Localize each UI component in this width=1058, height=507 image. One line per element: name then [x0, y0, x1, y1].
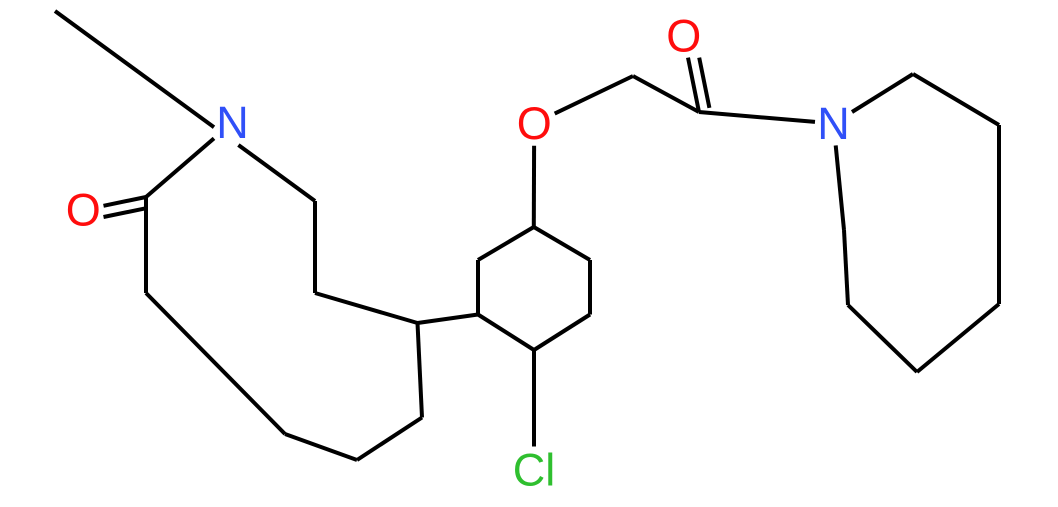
bond C11-C12: [917, 304, 999, 372]
svg-text:O: O: [666, 11, 701, 62]
ring bond T-TR: [534, 227, 590, 260]
bond R-S: [418, 323, 423, 418]
bond C12-C13b: [848, 305, 917, 372]
bond C13-N2: [836, 145, 844, 230]
bond N2-C9: [852, 74, 913, 112]
bond C1=O1 second line: [104, 208, 147, 217]
bond C7b-C7: [313, 201, 317, 293]
bond S-C7b: [315, 293, 418, 323]
ring bond TL-T: [478, 227, 534, 260]
bond S-BL link: [418, 315, 479, 324]
ring bond BR-B: [534, 315, 590, 351]
bond B-Cl: [532, 350, 536, 447]
bond C13b-C13: [844, 230, 848, 305]
bond chain CH3 side (upper piece, behind N label): [55, 11, 214, 127]
ring bond B-BL: [478, 315, 534, 351]
bond C2-P: [146, 293, 285, 434]
ring bond TR-BR: [588, 260, 592, 315]
bond C8-N2: [699, 112, 815, 122]
svg-text:N: N: [216, 97, 249, 148]
svg-text:O: O: [66, 185, 101, 236]
bond C10-C11: [997, 125, 1001, 304]
bond C9-C10: [913, 74, 999, 125]
ring bond BL-TL: [476, 260, 480, 315]
bond P-Q: [285, 434, 357, 460]
bond O2-T: [532, 146, 536, 227]
svg-text:Cl: Cl: [513, 445, 556, 496]
svg-text:O: O: [517, 98, 552, 149]
bond Q-R: [357, 418, 422, 461]
bond chain to C7 (lower piece, behind N label): [238, 145, 315, 201]
bond APX-C8: [633, 76, 699, 112]
bond C8=O3 second line: [699, 58, 709, 108]
bond C1=O1 main: [104, 197, 147, 206]
bond O2-APX: [555, 76, 633, 114]
bond C8=O3 main: [688, 58, 699, 112]
bond N1-C1: [146, 138, 214, 197]
svg-text:N: N: [817, 98, 850, 149]
bond C1-C2: [144, 197, 148, 293]
